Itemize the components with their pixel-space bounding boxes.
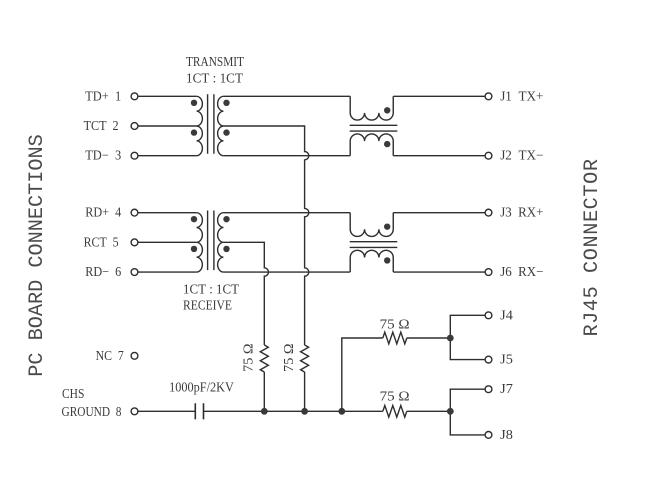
transformer T2 polarity dot (secondary upper) xyxy=(223,216,229,222)
common-mode choke L1 lower winding xyxy=(350,134,393,156)
svg-text:RD− 6: RD− 6 xyxy=(85,264,121,279)
terminal J2 xyxy=(485,152,492,159)
wire R2 to ground rail xyxy=(304,372,306,411)
wire R4 to J4/J5 node xyxy=(407,337,451,339)
transformer T1 polarity dot (secondary upper) xyxy=(223,100,229,106)
terminal pin 5 xyxy=(131,239,138,246)
svg-text:1CT : 1CT: 1CT : 1CT xyxy=(186,71,244,86)
capacitor C1 1000pF/2KV xyxy=(195,403,203,419)
terminal J3 xyxy=(485,209,492,216)
resistor R1 75ohm (vertical) xyxy=(260,345,268,372)
wire pin6 to T2 primary xyxy=(138,271,196,273)
svg-text:RD+ 4: RD+ 4 xyxy=(85,205,121,220)
wire T1 secondary top to choke L1 xyxy=(223,95,350,97)
common-mode choke L1 core xyxy=(350,125,398,131)
svg-text:J3 RX+: J3 RX+ xyxy=(500,205,543,220)
transformer T1 polarity dot (primary lower) xyxy=(191,129,197,135)
transformer T2 polarity dot (primary lower) xyxy=(191,246,197,252)
common-mode choke L2 core xyxy=(350,242,398,248)
svg-text:75 Ω: 75 Ω xyxy=(281,343,296,372)
svg-text:J7: J7 xyxy=(500,381,513,396)
svg-text:TCT 2: TCT 2 xyxy=(84,118,119,133)
svg-text:J4: J4 xyxy=(500,307,513,322)
common-mode choke L2 lower winding xyxy=(350,250,393,272)
wire choke L1 to J1 xyxy=(393,95,485,97)
resistor R3 75ohm (series in ground rail) xyxy=(383,406,407,418)
wire choke L1 to J2 xyxy=(393,155,485,157)
svg-text:TD+ 1: TD+ 1 xyxy=(85,88,121,103)
terminal pin 8 xyxy=(131,408,138,415)
wire branch rail to R4 xyxy=(342,338,383,411)
svg-text:75 Ω: 75 Ω xyxy=(240,343,255,372)
svg-text:CHS: CHS xyxy=(62,386,84,401)
svg-text:GROUND 8: GROUND 8 xyxy=(62,404,122,419)
wire choke L2 to J3 xyxy=(393,212,485,214)
terminal pin 6 xyxy=(131,269,138,276)
ground rail wire from R3 to J7/J8 node xyxy=(407,410,451,412)
terminal pin 4 xyxy=(131,209,138,216)
resistor R4 75ohm (to J4/J5) xyxy=(383,332,407,344)
wire J4/J5 bracket xyxy=(450,315,485,359)
terminal J4 xyxy=(485,312,492,319)
junction node (branch to J4/J5) xyxy=(338,408,345,415)
wire pin1 to T1 primary xyxy=(138,95,196,97)
junction node (J4/J5 bracket) xyxy=(447,335,454,342)
choke L1 polarity dot (lower) xyxy=(384,141,390,147)
svg-text:1000pF/2KV: 1000pF/2KV xyxy=(169,379,234,394)
svg-text:PC BOARD CONNECTIONS: PC BOARD CONNECTIONS xyxy=(26,134,49,376)
choke L2 polarity dot (lower) xyxy=(384,257,390,263)
transformer T1 secondary winding xyxy=(218,96,224,155)
wire pin4 to T2 primary xyxy=(138,212,196,214)
svg-text:J6 RX−: J6 RX− xyxy=(500,264,543,279)
wire T2 secondary top to choke L2 xyxy=(223,212,350,214)
svg-text:RJ45 CONNECTOR: RJ45 CONNECTOR xyxy=(581,158,604,336)
transformer T1 (transmit) primary winding xyxy=(197,96,203,155)
junction node (R2 to rail) xyxy=(301,408,308,415)
terminal pin 1 xyxy=(131,93,138,100)
svg-text:TRANSMIT: TRANSMIT xyxy=(186,54,245,69)
wire T2 secondary bottom to choke L2 xyxy=(223,271,350,273)
svg-text:75 Ω: 75 Ω xyxy=(380,388,410,403)
transformer T1 core xyxy=(208,94,214,154)
common-mode choke L1 (TX) upper winding xyxy=(350,96,393,120)
resistor R2 75ohm (vertical) xyxy=(301,345,309,372)
wire pin3 to T1 primary xyxy=(138,155,196,157)
junction node (J7/J8 bracket) xyxy=(447,408,454,415)
transformer T2 core xyxy=(208,211,214,271)
svg-text:J2 TX−: J2 TX− xyxy=(500,148,543,163)
choke L2 polarity dot (upper) xyxy=(384,223,390,229)
svg-text:1CT : 1CT: 1CT : 1CT xyxy=(183,282,240,297)
wire pin2 to T1 primary center tap xyxy=(138,125,196,127)
svg-text:NC 7: NC 7 xyxy=(96,348,124,363)
wire J7/J8 bracket xyxy=(450,389,485,435)
terminal J5 xyxy=(485,356,492,363)
svg-text:J1 TX+: J1 TX+ xyxy=(500,88,543,103)
transformer T2 secondary winding xyxy=(218,213,224,272)
wire pin5 to T2 primary center tap xyxy=(138,241,196,243)
terminal J1 xyxy=(485,93,492,100)
transformer T1 polarity dot (primary upper) xyxy=(191,100,197,106)
terminal J8 xyxy=(485,432,492,439)
terminal pin 2 xyxy=(131,123,138,130)
wire choke L2 to J6 xyxy=(393,271,485,273)
wire T2 secondary center tap down to R1 (with crossover hop) xyxy=(223,242,268,345)
svg-text:RECEIVE: RECEIVE xyxy=(183,298,232,313)
svg-text:RCT 5: RCT 5 xyxy=(84,234,119,249)
terminal J6 xyxy=(485,269,492,276)
transformer T2 (receive) primary winding xyxy=(197,213,203,272)
terminal J7 xyxy=(485,386,492,393)
wire pin8 to capacitor C1 xyxy=(138,410,195,412)
transformer T1 polarity dot (secondary lower) xyxy=(223,129,229,135)
svg-text:J5: J5 xyxy=(500,352,513,367)
choke L1 polarity dot (upper) xyxy=(384,107,390,113)
svg-text:TD− 3: TD− 3 xyxy=(85,148,121,163)
wire T1 secondary bottom to choke L1 xyxy=(223,155,350,157)
terminal pin 7 (NC) xyxy=(131,352,138,359)
svg-text:J8: J8 xyxy=(500,427,513,442)
terminal pin 3 xyxy=(131,152,138,159)
wire R1 to ground rail xyxy=(263,372,265,411)
common-mode choke L2 (RX) upper winding xyxy=(350,213,393,237)
junction node (R1 to rail) xyxy=(261,408,268,415)
ground rail wire from C1 to R3 xyxy=(204,410,383,412)
transformer T2 polarity dot (primary upper) xyxy=(191,216,197,222)
svg-text:75 Ω: 75 Ω xyxy=(380,317,410,332)
transformer T2 polarity dot (secondary lower) xyxy=(223,246,229,252)
wire T1 secondary center tap down to R2 (with crossover hops) xyxy=(223,126,308,345)
